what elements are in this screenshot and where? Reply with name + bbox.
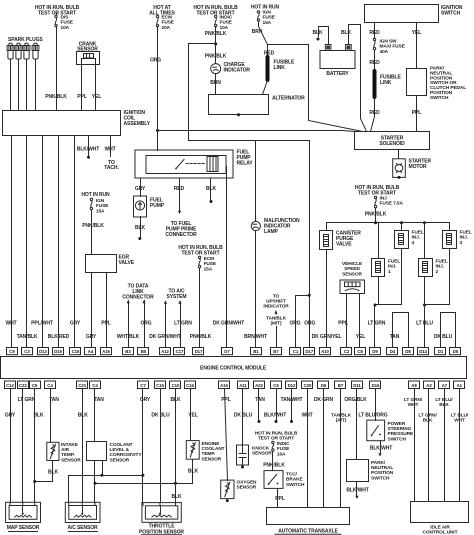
wire TAN C4 to coolant sensor (94, 389, 96, 442)
svg-text:WHT: WHT (104, 147, 115, 153)
svg-text:PNK/BLK: PNK/BLK (45, 94, 67, 100)
svg-text:INJ.: INJ. (460, 235, 468, 241)
ground dot oxygen sensor (226, 499, 229, 502)
svg-text:LT GRN/: LT GRN/ (404, 397, 423, 403)
connector pin B3 (top) (123, 348, 134, 355)
connector pin A11 (bottom) (238, 381, 249, 389)
label LT BLU/BLK (435, 397, 453, 408)
svg-text:15A: 15A (204, 266, 213, 272)
label LT GRN/WHT (404, 397, 423, 408)
ground dot knock sensor (241, 466, 244, 469)
svg-text:LAMP: LAMP (264, 229, 279, 235)
wire PNK/BLK branch to D17 (189, 44, 310, 348)
connector pin C15 (bottom) (155, 381, 166, 389)
svg-text:SENSOR: SENSOR (237, 485, 257, 491)
svg-text:BLK: BLK (48, 470, 58, 476)
charge indicator lamp (211, 64, 221, 74)
wire BLK/WHT ground stub (88, 136, 90, 157)
label PARK/NEUTRAL POSITION SWITCH (371, 460, 394, 481)
wire DK BLU A11 to knock sensor (242, 389, 244, 445)
label HOT IN RUN (ECM fuse) (178, 245, 223, 256)
svg-text:IGN SW: IGN SW (380, 39, 398, 45)
svg-text:COOLANT: COOLANT (202, 446, 225, 452)
svg-text:BLK/WHT: BLK/WHT (346, 488, 368, 494)
svg-text:ORG: ORG (150, 58, 161, 64)
label KNOCK SENSOR (252, 446, 272, 457)
wire YEL VSS to C8 (359, 294, 361, 348)
svg-text:TEMP.: TEMP. (61, 452, 75, 458)
engine coolant temp sensor (186, 441, 199, 460)
svg-text:YEL: YEL (412, 30, 421, 36)
wire BRN/WHT MIL to B1 (255, 231, 257, 348)
connector pin D14 (top) (418, 348, 429, 355)
wire GRY C7 to TPS (142, 389, 144, 503)
canister purge valve (320, 231, 333, 250)
wire TAN jumper D4 to D8 (393, 313, 409, 348)
svg-text:KNOCK: KNOCK (252, 446, 270, 452)
wire BLK relay ground (210, 179, 212, 201)
svg-text:WHT: WHT (5, 321, 16, 327)
label IDLE AIR CONTROL UNIT (423, 525, 458, 535)
intake air temp sensor (47, 442, 59, 460)
connector pin D8 (top) (403, 348, 414, 355)
svg-text:C17: C17 (176, 349, 184, 354)
svg-text:A16: A16 (102, 349, 110, 354)
svg-text:FUSE: FUSE (162, 20, 175, 26)
label INDIC FUSE 10A TCC (277, 441, 290, 457)
svg-text:C15: C15 (156, 383, 164, 388)
wire DK GRN/WHT relay to D7 (226, 167, 228, 348)
wire YEL C16 to ECT sensor (190, 389, 192, 441)
svg-text:TEST OR START: TEST OR START (358, 190, 396, 196)
wire PPL VSS to C2 (346, 294, 348, 348)
svg-text:TAN: TAN (94, 397, 104, 403)
svg-text:C10: C10 (172, 383, 180, 388)
svg-text:(A/T): (A/T) (336, 418, 347, 424)
connector pin A4 (top) (85, 348, 96, 355)
wire solenoid to starter motor (398, 150, 400, 159)
svg-text:SWITCH: SWITCH (286, 482, 305, 488)
label IGN FUSE 15A (263, 10, 276, 26)
svg-text:PPL/WHT: PPL/WHT (31, 321, 53, 327)
svg-text:SENSOR: SENSOR (202, 456, 222, 462)
connector pin C12 (bottom) (5, 381, 16, 389)
vehicle speed sensor (340, 280, 365, 294)
connector pin D9 (top) (370, 348, 381, 355)
wire PNK/BLK to EGR valve (91, 211, 93, 255)
svg-text:RED: RED (369, 30, 380, 36)
svg-text:2: 2 (436, 269, 439, 275)
fuse INDIC 10A (215, 15, 217, 27)
ignition switch (365, 5, 439, 23)
svg-text:ENGINE CONTROL MODULE: ENGINE CONTROL MODULE (200, 366, 267, 372)
svg-text:FUEL: FUEL (436, 259, 448, 265)
svg-text:ALTERNATOR: ALTERNATOR (272, 96, 305, 102)
svg-text:B7: B7 (273, 349, 279, 354)
spark plug 3 (23, 43, 30, 110)
svg-text:B1: B1 (253, 349, 259, 354)
connector pin A22 (bottom) (254, 381, 265, 389)
wire WHT/BLK to B3 (128, 301, 130, 348)
label STARTER SOLENOID (379, 136, 405, 147)
svg-text:PPL: PPL (77, 94, 86, 100)
svg-text:INDICATOR: INDICATOR (224, 68, 251, 74)
wire YEL crank sensor (95, 65, 97, 111)
svg-text:INJ.: INJ. (388, 264, 396, 270)
arrow prime connector (178, 211, 181, 214)
svg-text:RED: RED (369, 110, 380, 116)
connector pin A10 (top) (320, 348, 331, 355)
label FUEL INJ 2 (436, 259, 448, 275)
label DIS FUSE 10A (61, 15, 74, 31)
wire battery cable to starter solenoid (309, 45, 363, 132)
svg-text:BLK: BLK (341, 30, 351, 36)
svg-text:INJ: INJ (380, 196, 388, 202)
svg-text:C21: C21 (78, 383, 86, 388)
svg-text:ORG/BLK: ORG/BLK (344, 397, 367, 403)
svg-text:BRN/WHT: BRN/WHT (244, 334, 267, 340)
svg-text:FUSE: FUSE (96, 203, 109, 209)
park/neutral position switch (347, 460, 369, 482)
fuse IGN 15A (257, 11, 259, 22)
junction dot inj2/inj3 (423, 304, 426, 307)
wire bus A (GRY) (69, 476, 143, 503)
label LT GRN/BLK (418, 413, 437, 424)
arrow AC 1 (164, 301, 167, 304)
wire rail to fuel injector 2 (424, 223, 426, 259)
svg-text:WHT/BLK: WHT/BLK (117, 334, 140, 340)
junction dot PNK/BLK (214, 42, 217, 45)
svg-text:A4: A4 (88, 349, 94, 354)
label THROTTLE POSITION SENSOR (139, 524, 184, 535)
ground dot relay (210, 200, 213, 203)
label VEHICLE SPEED SENSOR (342, 261, 363, 277)
svg-text:PNK/BLK: PNK/BLK (190, 334, 212, 340)
svg-text:GRY: GRY (86, 334, 97, 340)
wire injector supply rail (327, 222, 450, 224)
connector pin D4 (top) (387, 348, 398, 355)
svg-text:FUEL: FUEL (412, 230, 424, 236)
label STARTER MOTOR (409, 159, 432, 170)
wire ORG branch to C1 (296, 296, 310, 348)
svg-text:ECM: ECM (162, 15, 172, 21)
svg-text:D17: D17 (305, 349, 313, 354)
svg-text:C4: C4 (47, 383, 53, 388)
svg-text:10A: 10A (61, 25, 70, 31)
label ECM FUSE 20A (162, 15, 175, 31)
svg-text:SWITCH: SWITCH (371, 475, 390, 481)
svg-text:C20: C20 (304, 383, 312, 388)
svg-text:D14: D14 (419, 349, 427, 354)
wire BLK/WHT C6 stub (276, 389, 278, 421)
svg-text:TEST OR START: TEST OR START (181, 250, 219, 256)
svg-text:RED: RED (174, 186, 185, 192)
svg-text:IGN: IGN (96, 198, 105, 204)
svg-text:40A: 40A (380, 49, 389, 55)
svg-text:D9: D9 (372, 349, 378, 354)
wire fuse to TCC switch (272, 452, 274, 471)
svg-text:FUSE 7.5A: FUSE 7.5A (380, 201, 404, 207)
wire PNK/BLK to D17 (199, 269, 201, 348)
svg-text:BLK: BLK (34, 413, 44, 419)
svg-text:1: 1 (388, 269, 391, 275)
wire GRY coil to C16 (74, 136, 76, 348)
svg-text:10A: 10A (277, 451, 286, 457)
junction dot alternator output (237, 113, 240, 116)
svg-text:C7: C7 (140, 383, 146, 388)
connector pin A2 (bottom) (424, 381, 435, 389)
label TO FUEL PUMP PRIME CONNECTOR (165, 221, 197, 238)
svg-text:A2: A2 (426, 383, 432, 388)
svg-text:INJ.: INJ. (436, 264, 444, 270)
svg-text:D17: D17 (195, 349, 203, 354)
svg-text:D16: D16 (372, 383, 380, 388)
svg-text:FUSE: FUSE (263, 15, 276, 21)
A/C sensor (65, 502, 100, 522)
wire DK GRN D6 to transaxle (323, 389, 325, 508)
svg-text:LINK: LINK (274, 65, 286, 71)
svg-text:DK GRN/WHT: DK GRN/WHT (213, 321, 245, 327)
wire PNK/BLK DIS fuse to ignition coil assembly (56, 27, 58, 111)
svg-text:D5: D5 (453, 349, 459, 354)
fusible link (starter) (373, 71, 377, 97)
svg-text:SENSOR: SENSOR (61, 457, 81, 463)
coolant level & corrosivity sensor (87, 442, 107, 461)
label TCC BRAKE SWITCH (286, 472, 305, 488)
svg-text:C22: C22 (19, 383, 27, 388)
wire RED to fusible link (267, 45, 269, 57)
label IGNITION COIL ASSEMBLY (124, 110, 151, 127)
label TAN/BLK (A/T) (331, 413, 352, 424)
label HOT IN RUN BULB (INDIC) (193, 5, 238, 16)
svg-text:SYSTEM: SYSTEM (167, 294, 187, 300)
connector pin C7 (bottom) (138, 381, 149, 389)
svg-text:HOT IN RUN: HOT IN RUN (81, 192, 110, 198)
connector pin C20 (bottom) (302, 381, 313, 389)
wire DK GRN/YEL canister to A10 (326, 250, 328, 348)
svg-text:UPSHIFT: UPSHIFT (266, 299, 286, 305)
svg-text:TAN: TAN (390, 334, 400, 340)
power steering pressure switch (367, 420, 385, 441)
svg-text:PPL: PPL (275, 496, 284, 502)
wire TAN/BLK B7 to transaxle (340, 389, 342, 508)
wire TAN C4 to IAT sensor (50, 389, 52, 443)
wire RED to starter solenoid (371, 97, 375, 132)
arrow upshift (274, 311, 277, 314)
wire GRY C12 to MAP sensor (10, 389, 12, 503)
wire inj2+inj3 join (425, 304, 450, 306)
connector pin A1 (bottom) (454, 381, 465, 389)
ground dot C6 (275, 420, 278, 423)
svg-text:D11: D11 (353, 383, 361, 388)
svg-text:D7: D7 (224, 349, 230, 354)
svg-text:C1: C1 (293, 349, 299, 354)
svg-text:LT GRN: LT GRN (368, 321, 386, 327)
connector pin C5 (bottom) (30, 381, 41, 389)
svg-text:BLK: BLK (188, 469, 198, 475)
connector pin D16 (bottom) (370, 381, 381, 389)
svg-text:FUEL: FUEL (460, 230, 472, 236)
svg-text:A8: A8 (411, 383, 417, 388)
fuel injector 3 (443, 231, 457, 249)
ground dot D12 (290, 420, 293, 423)
label CRANK SENSOR (77, 42, 98, 53)
junction dot BLK IAT branch (33, 480, 36, 483)
wire inj4 return (401, 249, 403, 305)
svg-text:4: 4 (412, 240, 415, 246)
svg-text:FUSE: FUSE (204, 261, 217, 267)
fuse IGN SW MAXI 40A (373, 38, 375, 50)
label CHARGE INDICATOR (224, 62, 251, 74)
svg-text:PRESSURE: PRESSURE (388, 431, 414, 437)
svg-text:RED: RED (264, 51, 275, 57)
wire ORG/BLK D11 to park/neutral switch (356, 389, 358, 460)
svg-text:DIS: DIS (61, 15, 70, 21)
svg-text:A1: A1 (457, 383, 463, 388)
connector pin A7 (bottom) (439, 381, 450, 389)
svg-text:SOLENOID: SOLENOID (379, 141, 405, 147)
junction dot bus A coolant (101, 474, 104, 477)
connector pin C10 (bottom) (170, 381, 181, 389)
svg-text:INDICATOR: INDICATOR (263, 304, 289, 310)
fusible link (alternator) (266, 57, 270, 80)
svg-text:FUEL: FUEL (388, 259, 400, 265)
connector pin A8 (bottom) (409, 381, 420, 389)
wire PPL to starter solenoid (416, 96, 418, 132)
fuel pump (134, 196, 147, 217)
svg-text:15A: 15A (263, 20, 272, 26)
wire fuse feed top (56, 14, 58, 15)
svg-text:GRY: GRY (140, 397, 151, 403)
connector pin C22 (bottom) (18, 381, 29, 389)
label LT BLU/WHT (451, 413, 469, 424)
wire ORG vertical (157, 27, 159, 131)
wire coolant sensor to bus A (102, 461, 104, 476)
label PARK/NEUTRAL POSITION SWITCH OR CLUTCH PEDAL POSITION SWITCH (430, 66, 466, 101)
svg-text:PPL: PPL (221, 397, 230, 403)
label EGR VALVE (119, 255, 135, 266)
connector pin A16 (bottom) (219, 381, 230, 389)
junction dot bus B right (174, 482, 177, 485)
svg-text:D8: D8 (405, 349, 411, 354)
fuse INJ 7.5A (374, 196, 376, 208)
wire PPL/WHT coil to D13 (42, 136, 44, 348)
wire BLK C5 to MAP sensor (34, 389, 36, 503)
svg-text:C3: C3 (24, 349, 30, 354)
wire BRN to junction (259, 22, 268, 45)
label FUSIBLE LINK 2 (380, 75, 401, 87)
ignition coil assembly (3, 111, 121, 136)
svg-text:LT GRN: LT GRN (18, 397, 36, 403)
svg-text:D19: D19 (54, 349, 62, 354)
svg-text:BLK: BLK (423, 418, 433, 424)
svg-text:D6: D6 (321, 383, 327, 388)
crank sensor (77, 52, 100, 65)
fuse ECM 15A (198, 256, 200, 268)
connector pin D17 (top) (193, 348, 204, 355)
wire bus B to ECT sensor (95, 460, 193, 484)
junction dot inj1/inj4 (374, 304, 377, 307)
connector pin A16 (top) (101, 348, 112, 355)
connector pin D13 (top) (38, 348, 49, 355)
wire GRY EGR to A4 (91, 273, 93, 348)
arrow PN ground (355, 496, 358, 499)
svg-text:VALVE: VALVE (119, 260, 135, 266)
wire DK GRN/WHT to A12 (165, 302, 167, 348)
connector pin C16 (bottom) (185, 381, 196, 389)
wire LT GRN to D9 (374, 305, 376, 348)
wire LT BLU/WHT A1 to idle air control (459, 389, 461, 502)
connector pin D6 (bottom) (318, 381, 329, 389)
fuse IGN 15A (EGR) (90, 198, 92, 210)
svg-text:ENGINE: ENGINE (202, 441, 221, 447)
svg-text:C16: C16 (186, 383, 194, 388)
svg-text:ORG: ORG (289, 321, 300, 327)
svg-text:COOLANT: COOLANT (110, 442, 133, 448)
fuse INDIC 10A (TCC) (272, 441, 274, 451)
connector pin C1 (top) (290, 348, 301, 355)
svg-text:AUTOMATIC TRANSAXLE: AUTOMATIC TRANSAXLE (278, 529, 338, 535)
fuse ECM 20A (156, 15, 158, 27)
idle air control unit (411, 502, 469, 523)
spark plug 2 (15, 43, 22, 110)
spark plug 4 (32, 43, 39, 110)
fuel pump relay (135, 150, 233, 178)
svg-text:C2: C2 (344, 349, 350, 354)
svg-text:HOT IN RUN, BULB: HOT IN RUN, BULB (255, 431, 298, 437)
connector pin D1 (top) (435, 348, 446, 355)
oxygen sensor (221, 480, 234, 499)
svg-text:STEERING: STEERING (388, 426, 412, 432)
wire inj1+inj4 join (375, 304, 402, 306)
wire WHT to tach (110, 136, 112, 157)
svg-text:BLK: BLK (172, 494, 182, 500)
svg-text:BRAKE: BRAKE (286, 477, 303, 483)
svg-text:LINK: LINK (380, 80, 392, 86)
svg-text:YEL: YEL (92, 94, 101, 100)
svg-text:LT GRN/: LT GRN/ (418, 413, 437, 419)
svg-text:D12: D12 (288, 383, 296, 388)
svg-text:C4: C4 (92, 383, 98, 388)
svg-text:ORG: ORG (304, 321, 315, 327)
svg-text:IDLE AIR: IDLE AIR (430, 525, 450, 531)
connector pin D11 (bottom) (352, 381, 363, 389)
fuel injector 2 (419, 259, 433, 277)
connector pin C6 (bottom) (271, 381, 282, 389)
svg-text:TAN: TAN (255, 397, 265, 403)
label MALFUNCTION INDICATOR LAMP (264, 218, 300, 235)
svg-text:MAXI FUSE: MAXI FUSE (380, 44, 406, 50)
svg-text:MAP SENSOR: MAP SENSOR (7, 525, 40, 531)
svg-text:POSITION SENSOR: POSITION SENSOR (139, 530, 184, 535)
wire DK BLU jumper D1 to D5 (441, 313, 456, 348)
svg-text:PPL: PPL (338, 321, 347, 327)
svg-text:DK GRN/YEL: DK GRN/YEL (312, 334, 342, 340)
svg-text:CONNECTOR: CONNECTOR (165, 232, 197, 238)
label TAN/BLK (M/T) (266, 316, 287, 327)
wire LT GRN/WHT A8 to idle air control (414, 389, 416, 502)
wire PPL TCC to transaxle (277, 489, 279, 508)
svg-text:GRY: GRY (70, 321, 81, 327)
svg-text:D4: D4 (390, 349, 396, 354)
svg-text:D1: D1 (438, 349, 444, 354)
svg-text:DK BLU: DK BLU (434, 334, 453, 340)
svg-text:INTAKE: INTAKE (61, 442, 79, 448)
wire inj2 return (424, 277, 426, 305)
wire BLK/RED coil to D19 (58, 136, 60, 348)
wire BLK C10 to TPS (175, 389, 177, 503)
label TO DATA LINK CONNECTOR (122, 284, 154, 301)
